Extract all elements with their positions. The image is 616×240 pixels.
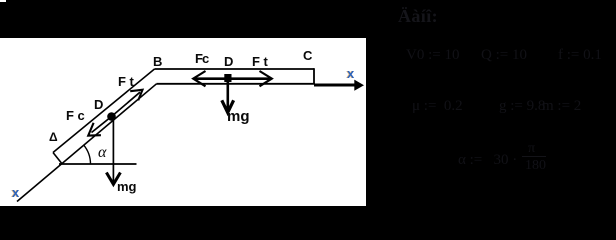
white diagram panel <box>0 38 366 206</box>
fraction denominator 180 <box>525 159 546 173</box>
Fc label (horizontal) <box>195 52 208 65</box>
x axis label (top, blue) <box>347 67 354 80</box>
Fc arrowhead on incline <box>88 123 101 136</box>
wire: right vertical step at C <box>313 68 315 84</box>
wire: upper horizontal surface line B-C <box>155 68 315 70</box>
node D label (incline) <box>94 98 103 111</box>
mg arrowhead on horizontal <box>222 100 234 112</box>
Ft arrow on incline: shaft <box>112 92 141 116</box>
x-axis arrowhead <box>354 80 364 91</box>
value alpha := 30*pi/180 <box>458 153 517 168</box>
Delta label <box>49 131 58 143</box>
value m := 2 <box>542 99 581 114</box>
mg label (horizontal) <box>227 109 250 124</box>
fraction bar <box>522 156 546 157</box>
block D on incline (filled dot) <box>107 112 116 121</box>
given-block title "Dano:" <box>398 7 438 25</box>
value f := 0.1 <box>558 48 602 63</box>
alpha label <box>98 145 106 161</box>
Ft label (horizontal) <box>252 55 268 68</box>
value V0 := 10 <box>406 48 459 63</box>
incline upper slab line <box>53 69 155 153</box>
node C label <box>303 49 312 62</box>
fraction numerator pi <box>528 142 535 156</box>
Ft arrowhead on incline <box>130 90 142 101</box>
Fc arrowhead (left, open barbs) <box>193 71 205 86</box>
x axis label (bottom, blue) <box>12 186 19 199</box>
Ft arrowhead (right, open barbs) <box>260 71 272 86</box>
Fc/Ft double arrow shaft on horizontal <box>194 77 271 80</box>
node B label <box>153 55 162 68</box>
mg arrow under block D on horizontal: shaft <box>227 82 230 110</box>
x-axis arrow (horizontal) shaft <box>314 84 356 87</box>
small white sliver top-left <box>0 0 6 2</box>
value Q := 10 <box>481 48 527 63</box>
block D on horizontal surface (filled square) <box>224 74 231 82</box>
angle arc alpha <box>84 145 91 164</box>
Fc arrow on incline: shaft <box>92 117 112 133</box>
incline end cap <box>53 153 62 164</box>
wire: lower horizontal surface line <box>157 83 315 85</box>
mg label (incline) <box>117 180 137 193</box>
mg arrowhead on incline <box>106 173 120 185</box>
F t label (incline) <box>118 75 134 88</box>
base horizontal line of angle <box>59 163 137 165</box>
node D label (horizontal) <box>224 55 233 68</box>
value g := 9.8 <box>499 99 545 114</box>
incline lower slab line (x axis of incline) <box>17 84 157 202</box>
F c label (incline) <box>66 109 85 122</box>
value mu := 0.2 <box>412 99 463 114</box>
mg arrow on incline: shaft <box>112 117 114 183</box>
